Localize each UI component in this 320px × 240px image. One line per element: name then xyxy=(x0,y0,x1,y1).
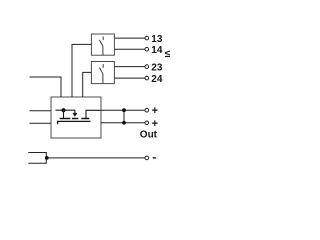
terminal circle plus 1 xyxy=(145,108,149,112)
minus bridge bracket xyxy=(28,153,46,164)
wire left stub row1 xyxy=(30,110,52,112)
terminal circle minus xyxy=(145,156,149,160)
transistor Q1 arrow lead xyxy=(74,110,76,113)
junction dot link bottom xyxy=(122,121,126,125)
label minus xyxy=(153,157,157,159)
contact K1 fixed terminal tick xyxy=(102,36,104,40)
svg-text:+: + xyxy=(152,118,158,130)
transistor Q1 channel segment 2 xyxy=(72,118,79,120)
wire output link vertical xyxy=(123,110,125,123)
wire terminal 13 xyxy=(114,37,145,39)
terminal circle 23 xyxy=(145,65,149,69)
transistor Q1 source tick xyxy=(63,110,65,118)
transistor Q1 channel segment 1 xyxy=(60,118,71,120)
wire terminal 23 xyxy=(114,66,145,68)
svg-text:≤: ≤ xyxy=(165,48,171,60)
transistor Q1 channel segment 3 xyxy=(81,118,89,120)
wire minus rail xyxy=(47,157,145,159)
wire K2 left lead xyxy=(83,72,92,97)
transistor Q1 drain step xyxy=(86,110,101,118)
svg-text:13: 13 xyxy=(151,34,163,45)
wire output row1 xyxy=(101,109,145,111)
contact K1 blade xyxy=(99,40,102,46)
relay contact box K1 xyxy=(91,34,114,55)
relay contact box K2 xyxy=(91,62,114,84)
wire K1 left lead xyxy=(72,44,91,97)
transistor Q1 source line xyxy=(56,109,76,111)
wire left input rail xyxy=(30,77,62,97)
svg-text:Out: Out xyxy=(140,129,158,140)
contact K2 fixed terminal tick xyxy=(102,64,104,68)
wire left stub row2 xyxy=(30,122,52,124)
wire terminal 14 xyxy=(114,48,145,50)
terminal circle 24 xyxy=(145,76,149,80)
contact K2 blade xyxy=(99,68,102,74)
wire output row2 xyxy=(101,122,145,124)
svg-text:14: 14 xyxy=(151,45,163,56)
transistor Q1 arrowhead xyxy=(73,113,78,117)
terminal circle 14 xyxy=(145,47,149,51)
contact K2 bottom lead xyxy=(102,74,104,84)
junction dot minus bracket xyxy=(45,156,49,160)
terminal circle 13 xyxy=(145,36,149,40)
junction dot link top xyxy=(122,108,126,112)
terminal circle plus 2 xyxy=(145,121,149,125)
svg-text:23: 23 xyxy=(151,63,163,74)
junction dot on source xyxy=(61,108,65,112)
wire terminal 24 xyxy=(114,77,145,79)
svg-text:+: + xyxy=(152,105,158,117)
svg-text:24: 24 xyxy=(151,74,163,85)
output module box U1 xyxy=(51,97,101,138)
transistor Q1 gate bar xyxy=(58,121,91,124)
contact K1 bottom lead xyxy=(102,46,104,55)
